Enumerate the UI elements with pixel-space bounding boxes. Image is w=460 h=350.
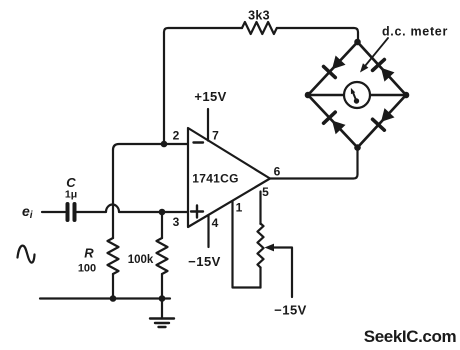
meter M circle xyxy=(344,82,370,108)
wire pin 1 down and right to pot bottom xyxy=(233,201,261,288)
svg-text:+15V: +15V xyxy=(194,89,226,104)
capacitor C 1u xyxy=(68,204,75,220)
node junction 100k/bottom rail xyxy=(159,295,166,302)
wire input left (ei to capacitor) xyxy=(42,211,65,213)
diode D1 top-left (points to left node) xyxy=(324,55,347,78)
diode D2 top-right (points to top node) xyxy=(373,60,396,83)
svg-text:1μ: 1μ xyxy=(65,189,77,201)
wire R bottom to ground rail xyxy=(112,274,114,299)
wire pin 7 to +15V xyxy=(207,109,209,141)
svg-text:6: 6 xyxy=(274,165,281,179)
op-amp U1 1741CG triangle xyxy=(188,128,270,227)
wire pin 2 horizontal xyxy=(113,144,188,150)
wire pin 4 to -15V xyxy=(207,215,209,247)
diode bridge diamond xyxy=(308,42,406,148)
op-amp plus input mark xyxy=(191,206,203,218)
diode D4 bottom-right (points to bottom node) xyxy=(373,107,396,130)
resistor 3k3 xyxy=(242,22,277,34)
wire bottom rail xyxy=(40,297,170,299)
node bridge left xyxy=(305,92,312,99)
sine wave source symbol xyxy=(18,246,35,263)
node bridge bottom xyxy=(354,144,361,151)
wire input with crossover hump to pin 3 xyxy=(77,205,189,212)
op-amp minus input mark xyxy=(194,141,204,143)
svg-text:7: 7 xyxy=(212,129,219,143)
svg-text:4: 4 xyxy=(212,216,219,230)
node bridge right xyxy=(403,92,410,99)
svg-text:1: 1 xyxy=(236,201,243,215)
svg-text:3: 3 xyxy=(173,215,180,229)
node junction input/100k xyxy=(159,209,166,216)
arrow from d.c. meter label xyxy=(357,38,388,75)
meter needle xyxy=(349,87,359,104)
wire output pin 6 to bridge bottom xyxy=(270,148,358,179)
wire vertical from pin2 corner down through R xyxy=(112,150,114,238)
potentiometer (offset null) xyxy=(258,224,264,288)
svg-text:3k3: 3k3 xyxy=(248,9,270,23)
svg-text:d.c. meter: d.c. meter xyxy=(382,25,448,39)
node junction pin2/feedback xyxy=(161,141,168,148)
node bridge top xyxy=(354,39,361,46)
svg-text:100: 100 xyxy=(78,263,96,275)
svg-text:−15V: −15V xyxy=(274,303,307,318)
diode D3 bottom-left (points to left node) xyxy=(324,112,347,135)
wire meter horizontal across bridge xyxy=(308,94,406,96)
ground xyxy=(150,299,174,328)
svg-text:SeekIC.com: SeekIC.com xyxy=(364,327,457,346)
pot wiper arrow to -15V xyxy=(265,244,293,297)
resistor 100k xyxy=(157,238,168,274)
resistor R 100 xyxy=(108,238,119,274)
wire 100k bottom xyxy=(161,274,163,299)
svg-text:2: 2 xyxy=(173,129,180,143)
svg-text:5: 5 xyxy=(262,185,269,199)
wire feedback top: pin2 junction up and across to bridge top xyxy=(164,28,358,144)
svg-text:R: R xyxy=(84,246,94,261)
svg-text:−15V: −15V xyxy=(188,254,221,269)
svg-text:1741CG: 1741CG xyxy=(192,172,239,186)
wire 100k top xyxy=(161,212,163,238)
node junction R/bottom rail xyxy=(110,295,117,302)
wire pin 5 down to pot top xyxy=(259,192,261,225)
svg-text:100k: 100k xyxy=(128,254,154,266)
